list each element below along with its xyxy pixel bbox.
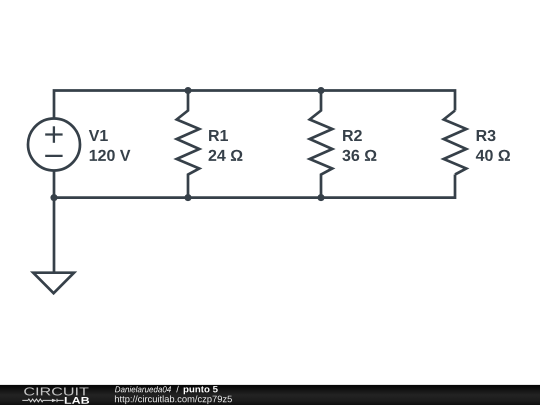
footer bar xyxy=(0,385,540,405)
label V1 xyxy=(89,130,108,141)
logo diode xyxy=(52,399,57,402)
node top R2 xyxy=(317,87,324,94)
logo squiggle resistor xyxy=(22,399,63,402)
footer title punto 5 xyxy=(184,386,218,394)
node bottom R2 xyxy=(317,194,324,201)
label R2 xyxy=(343,130,362,141)
wire top rail xyxy=(54,91,455,119)
wire bottom rail xyxy=(54,171,455,198)
footer username xyxy=(115,386,171,392)
ground xyxy=(33,273,74,294)
logo CIRCUIT xyxy=(24,387,88,395)
node bottom R1 xyxy=(184,194,191,201)
node top R1 xyxy=(184,87,191,94)
resistor R3 xyxy=(444,111,467,175)
voltage source V1 xyxy=(28,119,80,171)
resistor R2 xyxy=(310,91,333,198)
wire ground lead xyxy=(53,198,56,273)
label R3 xyxy=(477,130,496,141)
resistor R1 xyxy=(177,91,200,198)
label 120 V xyxy=(90,150,131,161)
label R1 xyxy=(209,130,228,141)
footer url xyxy=(115,395,232,404)
label 24 ohm xyxy=(209,150,243,161)
label 36 ohm xyxy=(342,150,376,161)
footer slash xyxy=(176,386,179,393)
label 40 ohm xyxy=(476,150,510,161)
node bottom V1 xyxy=(50,194,57,201)
logo LAB xyxy=(65,397,89,404)
